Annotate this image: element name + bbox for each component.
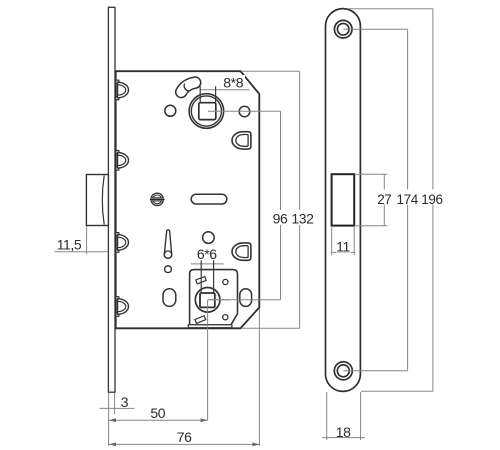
dim 132 top extension <box>241 70 300 72</box>
plate circle lower <box>223 315 228 320</box>
screw head <box>150 193 165 205</box>
right capsule slot near plate <box>240 289 252 307</box>
label 174 <box>396 190 420 205</box>
dark extension lines 8*8 <box>200 86 215 292</box>
D-hole lower <box>232 243 251 260</box>
cylinder plate <box>190 270 238 325</box>
label 11 <box>336 239 351 253</box>
screw lug 3 <box>116 233 129 253</box>
arrowheads <box>109 418 259 446</box>
circle above 6*6 <box>203 232 215 244</box>
dim 6*6 line <box>191 263 224 265</box>
spring banana slot chord <box>184 84 189 91</box>
spindle follower inner circle <box>191 96 221 126</box>
svg-text:132: 132 <box>291 210 314 226</box>
top screw hole outer <box>334 20 352 38</box>
faceplate strip (side view) <box>108 7 115 392</box>
teardrop slot <box>164 230 171 258</box>
plate foot strip <box>188 325 232 328</box>
dim 174 line <box>407 29 409 371</box>
spindle follower outer circle <box>189 94 224 129</box>
svg-text:11: 11 <box>336 239 350 255</box>
latch hole <box>332 174 355 225</box>
leader inside cylinder <box>208 299 230 301</box>
dim 11 extensions <box>331 226 333 255</box>
screw lug 2 <box>116 151 129 171</box>
svg-text:18: 18 <box>336 424 351 440</box>
plate screw rect lower <box>195 316 206 324</box>
small circle left of spindle <box>165 105 176 116</box>
bottom screw hole outer <box>334 362 352 380</box>
svg-text:3: 3 <box>121 394 129 410</box>
leader spindle center <box>208 110 281 112</box>
plate screw rect upper <box>196 277 206 284</box>
dim 27 extensions <box>355 173 388 175</box>
dim 76 line <box>109 443 259 445</box>
arrow 76 right <box>252 442 259 446</box>
dim 3 line <box>100 407 135 409</box>
svg-text:8*8: 8*8 <box>223 75 243 91</box>
dim 132 line <box>299 71 301 328</box>
svg-text:96: 96 <box>273 210 288 226</box>
svg-text:11,5: 11,5 <box>57 237 82 253</box>
label 132 <box>291 210 315 225</box>
dim 196 extensions <box>348 8 433 10</box>
strip right extension <box>114 393 116 415</box>
svg-text:76: 76 <box>177 429 192 445</box>
dim 8*8 line <box>200 89 249 91</box>
dim 132 bottom extension <box>241 327 300 329</box>
dim 174 leaders <box>344 28 408 30</box>
faceplate front outline <box>326 9 361 392</box>
spring banana slot inner white <box>181 83 195 92</box>
label 196 <box>421 190 445 205</box>
arrow 50 right <box>201 418 208 422</box>
screw lug 1 <box>116 80 129 100</box>
cylinder square hole 6x6 <box>200 293 215 307</box>
dim 76 right extension <box>258 309 260 447</box>
top screw hole inner <box>337 23 349 35</box>
cylinder circle <box>195 288 220 313</box>
dim 18 line <box>322 437 365 439</box>
teardrop bulb circle <box>164 251 171 258</box>
spindle square hole 8x8 <box>199 103 216 120</box>
svg-text:6*6: 6*6 <box>197 246 217 262</box>
dim 18 extensions <box>326 392 328 440</box>
svg-text:27: 27 <box>377 192 391 207</box>
dim 50 line <box>109 419 208 421</box>
plate circle upper <box>223 279 228 284</box>
dark extension lines 6*6 <box>200 260 202 293</box>
label 6*6 <box>195 247 220 260</box>
leader cylinder center <box>209 299 281 301</box>
small circle below teardrop <box>165 266 172 273</box>
label 8*8 <box>222 75 246 88</box>
svg-text:174: 174 <box>397 192 419 207</box>
spring banana slot outer <box>181 83 195 92</box>
dim 50 extension (cylinder center vertical) <box>207 300 209 421</box>
leader node circle on 96 line <box>239 106 250 117</box>
dim 11,5 extension <box>86 226 88 255</box>
strip left extension <box>108 393 110 447</box>
D-hole upper <box>232 132 251 149</box>
dim 196 line <box>432 9 434 392</box>
capsule slot <box>191 194 227 204</box>
dim 96 line <box>280 111 282 300</box>
left capsule slot near plate <box>163 289 176 307</box>
arrow 76 left <box>109 442 116 446</box>
lock body outline <box>116 71 260 328</box>
bottom screw hole inner <box>337 365 349 377</box>
svg-text:50: 50 <box>150 405 165 421</box>
latch bevel curve <box>102 176 104 225</box>
arrow 50 left <box>109 418 116 422</box>
screw lug 4 <box>116 297 129 317</box>
dim 11,5 line <box>55 251 109 253</box>
dim 27 line <box>383 174 385 226</box>
label 27 <box>377 190 393 205</box>
label 96 <box>272 210 289 225</box>
svg-text:196: 196 <box>421 192 442 207</box>
dim 11 line <box>331 251 355 253</box>
latch bolt <box>86 175 108 226</box>
